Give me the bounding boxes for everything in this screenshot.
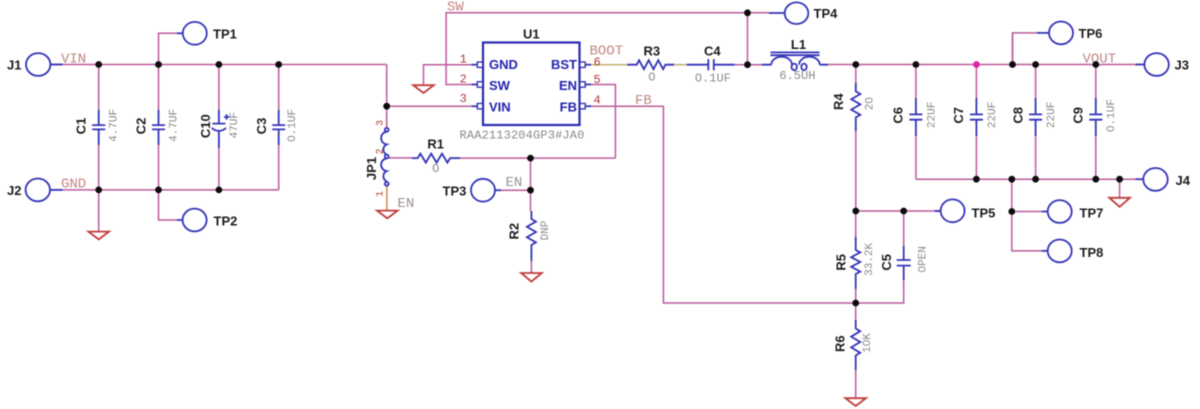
svg-text:4: 4 — [594, 94, 601, 108]
node VIN-C3 — [275, 61, 282, 68]
svg-text:J1: J1 — [7, 58, 21, 73]
ground below C1 column — [88, 232, 109, 240]
wire BST olive segment left of R3 — [591, 64, 627, 66]
svg-text:R2: R2 — [506, 223, 521, 240]
test point TP6 — [1037, 32, 1050, 34]
svg-text:22UF: 22UF — [1046, 102, 1058, 128]
svg-text:EN: EN — [398, 196, 415, 212]
wire TP1 branch — [159, 33, 178, 64]
node FB-R5-R6 — [852, 300, 859, 307]
wire junction down to R2 — [530, 158, 532, 211]
svg-text:DNP: DNP — [540, 220, 552, 240]
wire SW net pin2 to top rail — [446, 13, 747, 85]
node RTN-TP7 — [1008, 176, 1015, 183]
connector J3 — [1136, 64, 1145, 66]
node VOUT-C6 — [913, 61, 920, 68]
wire TP6 branch — [1013, 33, 1039, 65]
svg-text:2: 2 — [460, 73, 467, 87]
wire R4 top lead — [855, 65, 857, 84]
resistor R6 — [851, 320, 860, 370]
resistor R4 — [851, 83, 860, 131]
node GND-C2 — [155, 187, 162, 194]
node VIN-JP1 — [383, 103, 390, 110]
svg-text:U1: U1 — [523, 27, 540, 42]
svg-text:6.5UH: 6.5UH — [779, 69, 815, 83]
svg-text:BST: BST — [551, 57, 577, 72]
jumper JP1 — [386, 128, 388, 130]
capacitor C9 — [1089, 98, 1102, 136]
wire GND rail J2 to C3 — [50, 189, 279, 191]
wire R6 leads — [855, 303, 857, 320]
svg-text:TP2: TP2 — [214, 214, 238, 229]
svg-text:GND: GND — [61, 177, 86, 193]
svg-text:C5: C5 — [879, 254, 894, 271]
wire FB to C5 bottom — [856, 280, 904, 303]
wire EN net pin5 — [591, 85, 615, 159]
ground near J4 — [1109, 198, 1130, 207]
svg-text:TP4: TP4 — [814, 6, 839, 21]
svg-text:C9: C9 — [1071, 107, 1086, 124]
svg-text:O.1UF: O.1UF — [287, 109, 299, 142]
node RTN-C8 — [1032, 176, 1039, 183]
svg-text:TP7: TP7 — [1080, 206, 1104, 221]
inductor L1 — [762, 64, 828, 66]
svg-text:R4: R4 — [831, 93, 846, 110]
node RTN-GND — [1116, 176, 1123, 183]
svg-text:TP5: TP5 — [972, 206, 996, 221]
node VIN-C2 — [155, 61, 162, 68]
capacitor C3 — [272, 110, 285, 145]
ground below R2 — [521, 273, 542, 282]
node SW-TP4 — [744, 9, 751, 16]
node RTN-C9 — [1092, 176, 1099, 183]
wire TP7 stub — [1012, 211, 1042, 213]
wire U1 VIN pin3 — [387, 105, 472, 107]
svg-text:3: 3 — [375, 120, 386, 126]
node VOUT-C7 magenta — [973, 61, 980, 68]
wire TP7 TP8 vertical — [1012, 179, 1042, 251]
wire C7 leads — [975, 65, 977, 180]
wire C10 top lead — [218, 65, 220, 111]
node VOUT-R4 — [852, 61, 859, 68]
svg-text:TP1: TP1 — [213, 26, 237, 41]
wire C9 leads — [1095, 65, 1097, 180]
svg-text:R5: R5 — [834, 254, 849, 271]
capacitor C5 — [897, 246, 911, 280]
svg-text:O.1UF: O.1UF — [695, 71, 731, 85]
svg-text:C3: C3 — [254, 118, 269, 135]
svg-text:RAA2113204GP3#JA0: RAA2113204GP3#JA0 — [460, 129, 585, 143]
node RTN-C7 — [973, 176, 980, 183]
wire TP4 stub — [748, 12, 770, 14]
node EN-R1 — [527, 155, 534, 162]
svg-text:OPEN: OPEN — [918, 246, 930, 272]
svg-text:TP8: TP8 — [1080, 245, 1104, 260]
svg-text:1: 1 — [375, 191, 386, 197]
wire TP6 drop — [1012, 33, 1014, 65]
svg-text:R1: R1 — [427, 137, 444, 152]
wire C3 bottom drop — [278, 145, 280, 190]
svg-text:VIN: VIN — [61, 51, 86, 67]
svg-text:22UF: 22UF — [987, 102, 999, 128]
node TP7 junction — [1008, 208, 1015, 215]
node R4-R5-TP5 — [852, 208, 859, 215]
capacitor C1 — [92, 110, 105, 145]
wire C6 leads — [915, 65, 917, 180]
svg-text:C4: C4 — [704, 43, 721, 58]
svg-text:R3: R3 — [643, 43, 660, 58]
wire TP3 to junction — [500, 189, 531, 191]
node C5-TP5 — [900, 208, 907, 215]
svg-text:C10: C10 — [198, 114, 213, 138]
wire R2 bottom to ground — [530, 261, 532, 273]
svg-text:3: 3 — [460, 92, 467, 106]
svg-text:O: O — [648, 71, 655, 85]
svg-text:JP1: JP1 — [364, 157, 379, 180]
resistor R5 — [851, 237, 860, 289]
node GND-C1 — [95, 187, 102, 194]
svg-text:TP3: TP3 — [443, 184, 467, 199]
svg-text:FB: FB — [635, 93, 652, 109]
capacitor C7 — [970, 98, 983, 136]
wire BST olive segment R3 to C4 — [674, 64, 687, 66]
ground below JP1 — [377, 211, 398, 219]
test point TP3 — [471, 179, 495, 202]
wire SW drop to BST junction — [747, 13, 749, 65]
wire TP2 branch — [159, 190, 178, 220]
node VOUT-C9 — [1092, 61, 1099, 68]
svg-text:VOUT: VOUT — [1083, 51, 1117, 67]
capacitor C6 — [909, 98, 922, 136]
wire C5 top lead — [903, 211, 905, 246]
U1 pin 1 GND — [472, 64, 478, 66]
svg-text:C6: C6 — [891, 107, 906, 124]
capacitor C2 — [152, 110, 165, 145]
node GND-C10 — [216, 187, 223, 194]
wire TP5 line — [856, 210, 941, 212]
svg-text:L1: L1 — [791, 37, 806, 52]
svg-text:SW: SW — [489, 78, 511, 93]
node VOUT-C8 — [1032, 61, 1039, 68]
connector J1 — [50, 64, 62, 66]
wire C2 bottom lead — [158, 145, 160, 190]
wire R1 right to EN vertical — [450, 157, 615, 159]
svg-text:47UF: 47UF — [229, 112, 241, 138]
svg-text:2: 2 — [376, 148, 387, 154]
wire FB net pin4 — [591, 106, 856, 303]
resistor R2 — [527, 211, 536, 261]
wire C8 leads — [1035, 65, 1037, 180]
svg-text:J3: J3 — [1175, 58, 1189, 73]
wire R5 leads — [855, 211, 857, 303]
connector J2 — [50, 189, 63, 191]
resistor R1 — [412, 154, 460, 163]
svg-text:FB: FB — [560, 99, 577, 114]
svg-text:R6: R6 — [833, 335, 848, 352]
svg-text:4.7UF: 4.7UF — [168, 109, 180, 142]
wire C4 right to L1 junction — [735, 64, 762, 66]
svg-text:C8: C8 — [1010, 107, 1025, 124]
wire bottom VOUT return rail — [916, 178, 1140, 180]
U1 pin 6 BST — [585, 64, 591, 66]
wire gnd stub below C1 column — [98, 190, 100, 232]
wire J4 ground stub — [1119, 179, 1121, 198]
test point TP5 — [935, 210, 941, 212]
svg-text:4.7UF: 4.7UF — [109, 109, 121, 142]
U1 pin 2 SW — [472, 84, 478, 86]
connector J4 — [1136, 178, 1144, 180]
resistor R3 — [627, 60, 674, 69]
ground at U1 GND pin — [413, 85, 434, 93]
test point TP2 — [177, 219, 183, 221]
svg-text:C2: C2 — [134, 118, 149, 135]
node VIN-C10 — [216, 61, 223, 68]
wire JP1 pin2 to R1 — [389, 157, 412, 159]
svg-text:EN: EN — [559, 78, 577, 93]
svg-text:J2: J2 — [7, 183, 21, 198]
wire C10 bottom lead — [218, 148, 220, 190]
wire C3 top lead — [278, 65, 280, 111]
svg-text:O: O — [432, 162, 439, 176]
wire U1 GND pin1 to ground — [424, 65, 472, 86]
capacitor C8 — [1029, 98, 1042, 136]
test point TP1 — [177, 32, 183, 34]
svg-text:C7: C7 — [951, 107, 966, 124]
svg-text:1OK: 1OK — [862, 333, 874, 353]
svg-text:EN: EN — [506, 175, 523, 191]
capacitor C4 — [687, 59, 735, 70]
U1 pin 4 FB — [585, 105, 591, 107]
wire VIN rail J1 to corner — [50, 64, 386, 66]
svg-text:TP6: TP6 — [1079, 26, 1103, 41]
svg-text:VIN: VIN — [489, 99, 511, 114]
ground below R6 — [845, 398, 866, 406]
svg-text:33.2K: 33.2K — [864, 243, 876, 276]
capacitor C10 polarized — [212, 110, 225, 148]
svg-text:J4: J4 — [1176, 173, 1191, 188]
wire C1 bottom lead — [98, 145, 100, 190]
node VOUT-TP6 — [1009, 61, 1016, 68]
svg-text:SW: SW — [447, 0, 464, 16]
node EN-TP3 — [527, 187, 534, 194]
wire C1 top lead — [98, 65, 100, 111]
wire C2 top lead — [158, 65, 160, 111]
svg-text:GND: GND — [489, 57, 518, 72]
svg-text:BOOT: BOOT — [590, 43, 624, 59]
svg-text:C1: C1 — [74, 118, 89, 135]
U1 pin 3 VIN — [472, 105, 478, 107]
wire VIN drop to U1 VIN junction and JP1 — [386, 65, 388, 128]
wire JP1 pin1 orange stub — [386, 187, 388, 211]
svg-text:1: 1 — [460, 53, 467, 67]
svg-text:22UF: 22UF — [926, 102, 938, 128]
node BOOT-SW — [744, 61, 751, 68]
svg-text:2O: 2O — [865, 97, 877, 111]
U1 pin 5 EN — [585, 84, 591, 86]
IC U1 RAA2113204GP3#JA0 — [483, 43, 580, 126]
svg-text:O.1UF: O.1UF — [1106, 99, 1118, 132]
wire R4 bottom to TP5 line — [855, 131, 857, 211]
svg-text:5: 5 — [594, 73, 601, 87]
test point TP7 — [1042, 211, 1048, 213]
node VIN-C1 — [95, 61, 102, 68]
wire L1 right to VOUT rail — [828, 64, 1140, 66]
test point TP8 — [1042, 250, 1048, 252]
test point TP4 — [769, 12, 785, 14]
